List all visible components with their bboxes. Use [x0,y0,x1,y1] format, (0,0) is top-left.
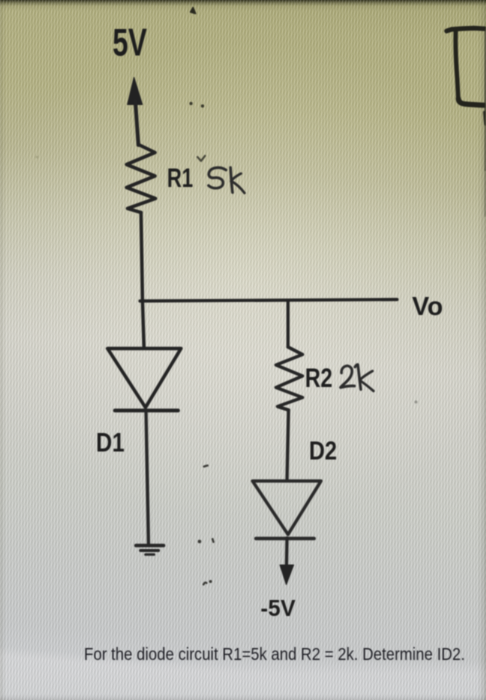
speck above R1 [198,156,206,161]
svg-text:For the diode circuit R1=5k an: For the diode circuit R1=5k and R2 = 2k.… [84,644,465,664]
wire node to D1 [143,301,145,348]
svg-text:D2: D2 [309,436,337,466]
svg-text:5V: 5V [113,22,148,65]
wire supply arrow up [128,78,143,146]
resistor R1 value label [167,163,245,193]
wire R2 to D2 [287,410,289,480]
caption text [84,644,465,664]
svg-text:Vo: Vo [412,291,443,321]
wire output node horizontal [140,300,397,302]
faint dot right [415,401,418,404]
svg-text:D1: D1 [96,428,125,458]
diode D2 label [309,436,337,466]
svg-text:-5V: -5V [261,595,296,621]
wire R1 to node [141,213,143,302]
node Vo label [412,291,443,321]
node -5V supply label [261,595,296,621]
hand-drawn bracket top right [447,28,486,216]
speck pair bottom [204,580,213,585]
svg-text:R1: R1 [167,163,193,193]
wire node to R2 [286,301,289,347]
wire D1 to ground [146,411,149,545]
speck top [191,8,196,14]
diode D1 label [96,428,125,458]
diode D1 [108,349,182,411]
resistor R2 [276,347,303,410]
resistor R1 [127,145,156,213]
speck pair lower [198,539,214,543]
wire D2 to -5V arrow down [280,538,294,585]
svg-text:R2: R2 [305,363,333,393]
node +5V supply label [113,22,148,65]
faint dot left [36,156,39,159]
resistor R2 value label [305,363,374,393]
speck mid [204,466,208,467]
diode D2 [253,481,322,539]
speck pair upper [189,102,204,108]
ground [136,546,164,555]
